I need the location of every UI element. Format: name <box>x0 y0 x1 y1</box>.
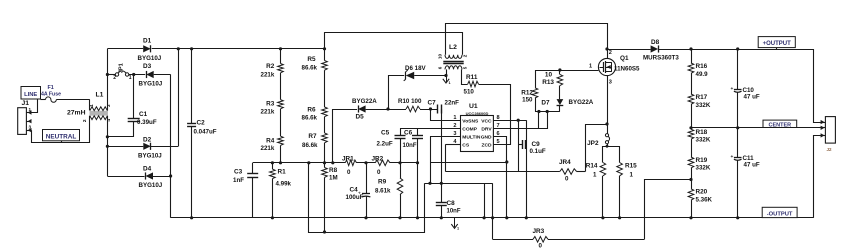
diode D2 BYG10J <box>107 146 143 148</box>
svg-text:GND: GND <box>481 135 492 141</box>
svg-text:C1: C1 <box>139 111 148 118</box>
resistor R6 86.6k <box>324 70 326 107</box>
resistor R10 100 <box>406 106 420 112</box>
wire Q1 source to JP2 <box>607 76 609 134</box>
diode D5 BYG22A <box>332 109 334 163</box>
resistor R1 4.99k <box>271 161 274 164</box>
svg-text:ZCD: ZCD <box>482 143 493 149</box>
svg-text:5: 5 <box>497 139 500 145</box>
svg-text:1: 1 <box>29 107 32 112</box>
svg-text:R2: R2 <box>266 63 275 70</box>
svg-text:D3: D3 <box>143 63 152 70</box>
main bottom rail <box>171 217 814 219</box>
svg-text:2.2uF: 2.2uF <box>377 140 393 147</box>
connector J2 output <box>825 117 835 144</box>
svg-text:D5: D5 <box>356 114 365 121</box>
svg-text:VCC: VCC <box>481 118 492 124</box>
svg-text:86.6k: 86.6k <box>302 114 318 121</box>
svg-text:0: 0 <box>347 169 351 176</box>
svg-text:R7: R7 <box>308 133 317 140</box>
jumper JP2 <box>605 134 608 137</box>
wire VCC branch to ground rail <box>526 120 528 218</box>
label -OUTPUT <box>762 207 797 217</box>
resistor R15 1 <box>607 147 620 163</box>
wire Q1 drain node <box>605 47 608 50</box>
svg-text:0.047uF: 0.047uF <box>194 129 217 136</box>
wire U gnd to rail <box>484 183 486 218</box>
svg-text:1nF: 1nF <box>233 177 244 184</box>
capacitor C9 0.1uF <box>518 120 520 171</box>
svg-text:22nF: 22nF <box>445 100 460 107</box>
row aux gnd <box>430 162 507 164</box>
svg-text:86.6k: 86.6k <box>302 142 318 149</box>
svg-text:49.9: 49.9 <box>696 71 709 78</box>
svg-text:3: 3 <box>106 104 112 107</box>
capacitor C10 47uF <box>737 49 739 89</box>
capacitor C2 0.047uF <box>191 49 193 124</box>
wire top rail to D2 vertical <box>178 49 180 147</box>
svg-text:L1: L1 <box>96 92 104 99</box>
resistor JR2 0 <box>375 160 390 166</box>
svg-text:10: 10 <box>437 54 442 60</box>
wire pin3 MULTIN <box>430 136 461 138</box>
capacitor C1 0.39uF <box>133 75 135 119</box>
svg-text:11N60S5: 11N60S5 <box>614 65 640 72</box>
diode D8 MURS360T3 <box>607 49 651 51</box>
capacitor C11 47uF <box>737 128 739 157</box>
svg-text:10nF: 10nF <box>447 209 461 215</box>
resistor R18 332K <box>688 129 694 139</box>
svg-text:R11: R11 <box>466 74 478 81</box>
resistor R17 332K <box>691 73 693 94</box>
IC U1 UCC28600D <box>461 116 494 152</box>
svg-text:BYG10J: BYG10J <box>138 55 162 62</box>
svg-text:BYG22A: BYG22A <box>352 98 377 105</box>
svg-text:D7: D7 <box>541 99 550 106</box>
label LINE <box>21 87 41 100</box>
svg-text:221k: 221k <box>261 108 275 115</box>
capacitor C4 100uF <box>366 163 368 194</box>
svg-text:3: 3 <box>29 125 32 130</box>
svg-text:U1: U1 <box>469 103 478 110</box>
resistor R16 49.9 <box>691 49 693 63</box>
svg-text:1: 1 <box>589 64 592 70</box>
wire pin8 VCC <box>493 120 526 122</box>
wire J1 pin1 to LINE <box>26 99 37 113</box>
wire pin6 GND <box>493 137 506 218</box>
resistor R4 221k <box>280 109 282 136</box>
svg-text:BYG10J: BYG10J <box>138 152 162 159</box>
svg-text:4: 4 <box>106 119 112 122</box>
wire bridge left vertical to bottom rail <box>170 75 172 218</box>
svg-text:D4: D4 <box>143 166 152 173</box>
resistor R2 221k <box>280 49 282 64</box>
ground U under IC <box>425 183 493 185</box>
svg-text:5: 5 <box>463 66 468 69</box>
svg-text:CENTER: CENTER <box>768 122 791 128</box>
svg-text:L2: L2 <box>449 44 457 51</box>
svg-text:D1: D1 <box>143 38 152 45</box>
wire +OUTPUT to connector <box>814 49 821 123</box>
svg-text:VoSNS: VoSNS <box>462 118 479 124</box>
svg-text:DRV: DRV <box>481 126 492 132</box>
capacitor C8 10nF <box>436 202 447 204</box>
svg-text:5.36K: 5.36K <box>696 197 713 204</box>
svg-text:R14: R14 <box>586 163 598 170</box>
svg-text:-OUTPUT: -OUTPUT <box>767 211 793 217</box>
svg-text:C4: C4 <box>350 187 359 194</box>
resistor R12 150 <box>535 70 537 88</box>
svg-text:F1: F1 <box>48 85 54 91</box>
svg-text:2: 2 <box>463 54 468 57</box>
label +OUTPUT <box>758 37 795 48</box>
wire L2 pin5 down to R11 <box>462 69 468 84</box>
svg-text:0: 0 <box>377 169 381 176</box>
wire feedback JR3 riser <box>492 183 494 239</box>
wire R11 to ZCD <box>479 85 511 145</box>
svg-text:LINE: LINE <box>24 92 37 98</box>
svg-text:C9: C9 <box>532 141 541 148</box>
svg-text:BYG10J: BYG10J <box>139 81 163 88</box>
svg-text:JP2: JP2 <box>587 140 599 147</box>
svg-text:R17: R17 <box>696 94 708 101</box>
svg-text:C6: C6 <box>404 129 413 136</box>
wire feedback tap riser <box>645 180 692 240</box>
capacitor C6 10nF <box>417 128 419 135</box>
svg-text:JR3: JR3 <box>533 228 545 235</box>
svg-text:+: + <box>731 87 734 92</box>
wire gate row <box>535 70 598 72</box>
diode D1 BYG10J <box>143 45 151 52</box>
capacitor C3 1nF <box>252 163 254 174</box>
svg-text:R3: R3 <box>266 101 275 108</box>
svg-text:86.6k: 86.6k <box>302 64 318 71</box>
svg-text:47 uF: 47 uF <box>744 94 760 101</box>
svg-text:2: 2 <box>609 50 612 56</box>
svg-text:Q1: Q1 <box>620 55 629 62</box>
svg-text:R19: R19 <box>696 157 708 164</box>
resistor R3 221k <box>280 73 282 100</box>
svg-text:BYG10J: BYG10J <box>139 182 163 189</box>
net arrow at ground rail <box>454 218 456 228</box>
diode D3 BYG10J <box>146 71 154 78</box>
svg-text:R13: R13 <box>542 79 554 86</box>
resistor R14 1 <box>603 147 608 163</box>
svg-text:C3: C3 <box>234 169 243 176</box>
svg-text:2: 2 <box>82 119 88 122</box>
svg-text:C7: C7 <box>428 100 437 107</box>
svg-text:0.1uF: 0.1uF <box>530 148 546 155</box>
net arrow below L2 aux <box>446 76 448 83</box>
resistor R8 1M <box>322 168 328 178</box>
svg-text:CS: CS <box>462 143 470 149</box>
svg-text:10nF: 10nF <box>403 143 417 149</box>
resistor R20 5.36K <box>688 189 694 200</box>
wire gate network bottom <box>535 111 560 113</box>
svg-text:3: 3 <box>609 80 612 86</box>
resistor JR3 0 <box>493 239 533 241</box>
svg-text:0: 0 <box>565 176 569 183</box>
svg-text:+: + <box>731 155 734 160</box>
wire divider net drop to lower bus <box>309 163 425 233</box>
wire L2 pin10 to top rail to Q1 drain <box>446 24 608 59</box>
svg-text:R18: R18 <box>696 129 708 136</box>
svg-text:47 uF: 47 uF <box>744 162 760 169</box>
wire J1 pin3 to NEUTRAL to L1 pin2 <box>32 116 90 143</box>
svg-text:BYG22A: BYG22A <box>569 99 594 106</box>
svg-text:D2: D2 <box>143 136 152 143</box>
svg-text:10: 10 <box>545 71 553 78</box>
svg-text:8.61k: 8.61k <box>375 188 391 195</box>
svg-text:JP1: JP1 <box>119 63 125 73</box>
connector J1 <box>18 108 27 135</box>
fuse F1 <box>41 99 46 101</box>
resistor R11 510 <box>468 81 479 87</box>
svg-text:R1: R1 <box>278 169 287 176</box>
wire source sense branch <box>586 125 608 172</box>
svg-text:R20: R20 <box>696 189 708 196</box>
svg-text:R9: R9 <box>378 179 387 186</box>
svg-text:JR4: JR4 <box>559 159 571 166</box>
wire CENTER row <box>691 127 821 129</box>
svg-text:NEUTRAL: NEUTRAL <box>46 134 77 141</box>
svg-text:2: 2 <box>113 75 116 81</box>
label NEUTRAL <box>43 130 80 141</box>
wire L1 pin3 up to bridge <box>107 49 109 111</box>
svg-text:R15: R15 <box>625 163 637 170</box>
resistor R19 332K <box>691 139 693 157</box>
svg-text:27mH: 27mH <box>67 109 86 116</box>
svg-text:JR2: JR2 <box>372 155 384 162</box>
wire L2 pin2 up and left to bulk rail <box>325 33 463 55</box>
resistor R13 10 <box>559 70 561 74</box>
svg-text:1: 1 <box>630 171 634 178</box>
svg-text:R8: R8 <box>329 167 338 174</box>
wire pin7 DRV <box>493 112 547 129</box>
svg-text:J1: J1 <box>22 100 30 107</box>
diode D4 BYG10J <box>107 176 144 178</box>
svg-text:332K: 332K <box>696 137 711 144</box>
svg-text:1M: 1M <box>329 175 338 182</box>
svg-text:221k: 221k <box>261 71 275 78</box>
resistor R7 86.6k <box>324 117 326 133</box>
label CENTER <box>763 120 797 127</box>
wire DRV branch riser <box>538 112 540 129</box>
svg-text:1: 1 <box>449 81 451 85</box>
svg-text:R5: R5 <box>307 56 316 63</box>
svg-text:332K: 332K <box>696 102 711 109</box>
wire L2 pin6 down to D6 node <box>446 69 448 75</box>
wire pin4 CS <box>445 144 460 146</box>
svg-text:0: 0 <box>539 243 543 249</box>
svg-text:+OUTPUT: +OUTPUT <box>763 41 792 47</box>
svg-text:JR1: JR1 <box>342 155 354 162</box>
svg-text:MULTIN: MULTIN <box>462 135 481 141</box>
svg-text:150: 150 <box>522 96 533 103</box>
svg-text:UCC28600D: UCC28600D <box>466 111 489 116</box>
svg-text:MURS360T3: MURS360T3 <box>643 55 679 62</box>
svg-text:R4: R4 <box>266 137 275 144</box>
svg-text:1: 1 <box>593 171 597 178</box>
capacitor C7 22nF <box>437 105 439 114</box>
resistor JR4 0 <box>445 171 559 173</box>
svg-text:+: + <box>358 190 361 195</box>
wire fuse down to L1 <box>89 100 91 111</box>
svg-text:C5: C5 <box>381 129 390 136</box>
wire -OUTPUT to connector <box>814 136 821 218</box>
svg-text:510: 510 <box>464 89 475 96</box>
wire C7/C8 column <box>441 109 443 183</box>
svg-text:C8: C8 <box>447 200 456 207</box>
wire L1 pin4 down <box>107 116 109 176</box>
svg-text:C2: C2 <box>197 120 206 127</box>
wire pin2 COMP <box>400 128 461 130</box>
svg-text:100uF: 100uF <box>346 194 364 201</box>
svg-text:D8: D8 <box>651 39 660 46</box>
diode D7 BYG22A <box>559 86 561 100</box>
svg-text:R6: R6 <box>307 107 316 114</box>
svg-text:1: 1 <box>89 104 95 107</box>
top rail from bridge <box>107 48 143 50</box>
resistor JR1 0 <box>345 160 356 166</box>
transistor Q1 11N60S5 <box>598 58 615 75</box>
svg-text:D6 18V: D6 18V <box>405 65 427 72</box>
svg-text:R10 100: R10 100 <box>398 98 422 105</box>
svg-text:R12: R12 <box>521 89 533 96</box>
jumper JP1 <box>107 74 115 76</box>
capacitor C5 2.2uF <box>400 128 402 135</box>
svg-text:COMP: COMP <box>462 126 477 132</box>
svg-text:J2: J2 <box>826 147 832 152</box>
svg-text:332K: 332K <box>696 165 711 172</box>
svg-text:4.99k: 4.99k <box>276 181 292 188</box>
svg-text:6: 6 <box>438 66 443 69</box>
svg-text:R16: R16 <box>696 63 708 70</box>
resistor R5 86.6k <box>324 32 326 60</box>
svg-text:1: 1 <box>129 75 132 81</box>
zener D6 18V <box>389 76 405 110</box>
svg-text:0.39uF: 0.39uF <box>137 119 157 126</box>
svg-text:1: 1 <box>457 226 459 230</box>
resistor R9 8.61k <box>400 163 402 178</box>
wire pin1 VoSNS <box>431 109 461 121</box>
node row divider bottom <box>253 162 346 164</box>
svg-text:221k: 221k <box>261 145 275 152</box>
svg-text:4A Fuse: 4A Fuse <box>41 91 61 97</box>
